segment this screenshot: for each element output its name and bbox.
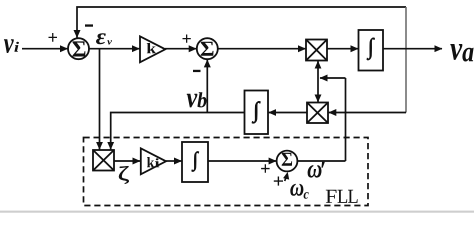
wire omega-prime up into X1 bottom [317, 61, 319, 78]
wire omega-prime riser [345, 78, 347, 161]
wire I3 to S3 [208, 160, 276, 162]
label minus at S1 top [85, 24, 93, 26]
wire X3 to gain ki [114, 160, 140, 162]
label FLL (L) [348, 190, 358, 203]
label ki in gain (k) [147, 157, 154, 167]
label plus at S1 input [49, 33, 58, 42]
label Sigma in S3 [282, 153, 292, 166]
summing junction S1 [68, 38, 89, 59]
wire vb from I2 output down into multiplier X3 [111, 113, 245, 150]
label integral in I2 [252, 101, 260, 123]
label minus at S2 bottom [193, 70, 201, 72]
wire S1 to gain k [89, 48, 140, 50]
label integral in I1 [367, 38, 375, 60]
summing junction S2 [197, 38, 218, 59]
scan border band at bottom [0, 211, 474, 213]
label FLL (F) [326, 190, 337, 203]
label vb (v) [187, 94, 198, 108]
wire ki to integrator I3 [166, 160, 182, 162]
multiplier X1 box with cross [306, 40, 327, 61]
label Sigma in S2 [201, 42, 214, 56]
integrator I2 box [245, 91, 269, 135]
label va (a subscript) [462, 48, 473, 62]
label epsilon [96, 33, 106, 44]
gain ki triangle [141, 148, 166, 174]
label vi (i subscript) [14, 42, 19, 52]
wire omega-prime to X2 top [317, 78, 319, 102]
label Sigma in S1 [73, 41, 86, 56]
wire epsilon tap down to multiplier X3 [99, 49, 101, 150]
wire k to S2 [165, 48, 196, 50]
multiplier X2 box with cross [307, 103, 328, 124]
label omega-c (omega) [290, 184, 303, 196]
label plus at S3 left input [261, 164, 270, 173]
label FLL (L) [338, 190, 348, 203]
integrator I1 box [359, 30, 384, 71]
summing junction S3 [277, 151, 298, 172]
label vi (v) [4, 39, 14, 53]
label epsilon subscript v [107, 40, 112, 44]
label vb (b subscript) [197, 92, 206, 107]
label omega-prime (omega) [308, 165, 322, 178]
label integral in I3 [192, 152, 199, 172]
gain k triangle [140, 36, 165, 62]
integrator I3 box [182, 142, 208, 182]
label plus at S2 input [183, 35, 191, 43]
wire va feedback into X2 right input [329, 112, 406, 114]
wire X2 to integrator I2 [269, 112, 307, 114]
label omega-prime (prime) [322, 162, 325, 168]
label k in gain [147, 43, 156, 53]
wire I1 output to va [383, 48, 442, 50]
wire input vi to S1 [22, 48, 68, 50]
wire S2 to multiplier X1 [218, 48, 306, 50]
dashed FLL box [84, 138, 369, 206]
wire S3 output to riser [297, 160, 345, 162]
wire vb branch up to S2 minus input [206, 60, 208, 113]
label ki in gain (i) [155, 158, 159, 167]
wire omega-prime jog into junction [320, 77, 346, 79]
wire va feedback vertical [405, 7, 407, 113]
label plus at S3 bottom input [274, 177, 283, 186]
label zeta [119, 166, 129, 184]
wire omega-c into S3 bottom [285, 177, 287, 182]
label omega-c (c subscript) [304, 192, 309, 199]
wire X1 to integrator I1 [327, 48, 358, 50]
wire top feedback from output to S1 minus input [77, 7, 406, 38]
label va (v) [450, 44, 462, 60]
multiplier X3 box with cross [93, 150, 114, 171]
